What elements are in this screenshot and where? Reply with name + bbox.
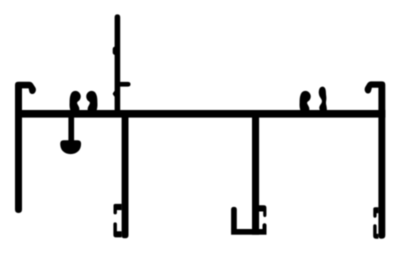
- gasket bump 3: [300, 91, 311, 110]
- right wall lower hook: [373, 224, 378, 238]
- gasket bump 1: [70, 91, 81, 110]
- gasket bump 4 (taller): [319, 87, 327, 110]
- middle channel right stub: [263, 223, 267, 230]
- middle descender: [252, 117, 259, 235]
- left outer wall with top arm and beak hook: [15, 82, 36, 213]
- pendant dome: [60, 140, 81, 154]
- middle channel bottom: [231, 229, 266, 235]
- gasket bump 2: [86, 91, 97, 110]
- lower-left descender: [122, 117, 129, 238]
- right outer wall with top arm and beak hook: [365, 81, 386, 238]
- main horizontal web: [15, 110, 385, 118]
- right wall upper hook: [373, 207, 378, 218]
- top vertical glazing leg with bulge, wedge and right stub: [113, 14, 131, 110]
- lower-left upper hook: [114, 204, 122, 215]
- middle channel left stub: [231, 207, 237, 230]
- lower-left lower hook: [113, 222, 121, 237]
- middle channel upper right hook: [259, 205, 266, 217]
- pendant stem: [68, 117, 74, 141]
